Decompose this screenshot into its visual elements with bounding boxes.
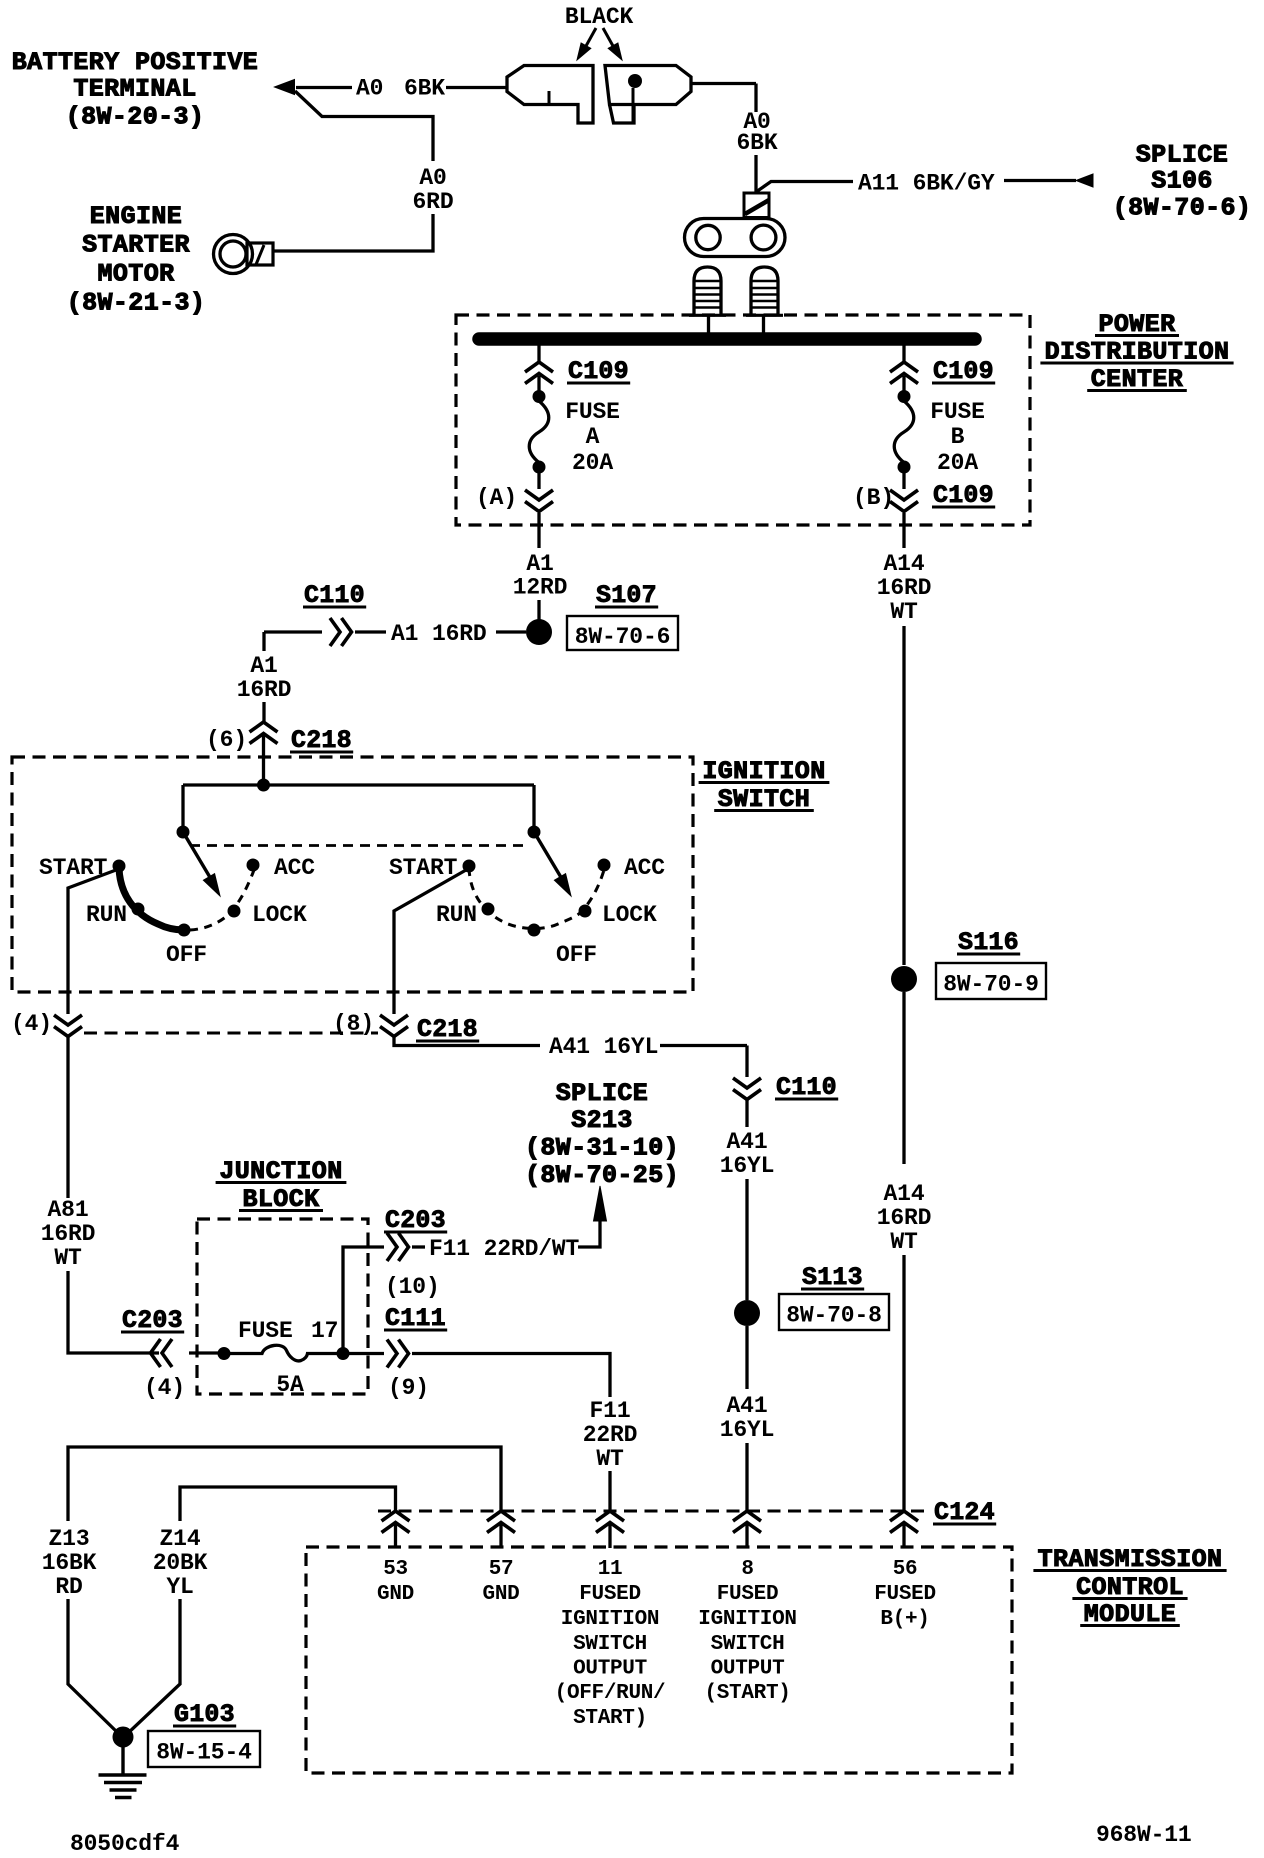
svg-text:A41: A41 [727,1393,768,1419]
svg-text:OFF: OFF [556,942,597,968]
mechanical coupling dashed line [190,844,530,847]
pin stub wires into TCM [394,1523,397,1548]
connector C203 left chevrons [162,1339,172,1367]
svg-text:56: 56 [893,1558,918,1581]
svg-text:MOTOR: MOTOR [97,260,174,289]
svg-text:SWITCH: SWITCH [573,1633,647,1656]
svg-text:A0: A0 [356,76,383,102]
svg-text:A1: A1 [526,551,553,577]
wire A1 16RD horizontal [264,630,322,633]
junction dot fuse17 right [337,1347,350,1360]
svg-text:11: 11 [598,1558,623,1581]
wire fuse B top [902,345,905,362]
wire branch to starter motor [295,91,433,161]
left switch dashed arc OFF-LOCK-ACC [190,870,254,930]
svg-text:WT: WT [890,599,918,625]
fuse 17 element [230,1345,343,1361]
wire A14 to TCM pin 56 [902,1255,905,1510]
svg-text:FUSE: FUSE [238,1318,293,1344]
svg-text:ACC: ACC [624,855,665,881]
svg-text:FUSE: FUSE [565,399,620,425]
wire A11 6BK/GY to splice S106 [756,182,853,193]
junction dot fuse17 left [218,1347,231,1360]
svg-text:8W-15-4: 8W-15-4 [156,1740,252,1766]
svg-text:(8): (8) [333,1011,374,1037]
connector C124 pin 57 chevrons [487,1511,515,1521]
wire into ignition switch [262,734,265,785]
svg-text:OUTPUT: OUTPUT [573,1658,647,1681]
ignition switch dashed box [12,757,693,992]
svg-text:(A): (A) [476,485,517,511]
wire A41 to TCM pin 8 [745,1443,748,1510]
wire after C110 [355,630,386,633]
wire A81 to junction block [68,1271,159,1353]
battery connector left half [507,66,593,124]
splice S113 dot [734,1300,760,1326]
svg-text:(8W-31-10): (8W-31-10) [525,1134,679,1163]
svg-text:(10): (10) [385,1274,440,1300]
svg-text:8050cdf4: 8050cdf4 [70,1831,180,1857]
wire Z14 to ground [127,1599,180,1734]
junction dot fuse A bottom [533,461,546,474]
svg-text:22RD: 22RD [583,1422,638,1448]
svg-text:(8W-21-3): (8W-21-3) [67,289,206,318]
engine starter motor eyelet terminal [214,235,253,274]
svg-text:ACC: ACC [274,855,315,881]
svg-text:A1 16RD: A1 16RD [391,621,487,647]
transmission control module dashed box [306,1547,1012,1773]
svg-text:A: A [586,424,600,450]
svg-text:12RD: 12RD [513,575,568,601]
svg-text:TERMINAL: TERMINAL [73,75,196,104]
svg-text:B: B [951,424,965,450]
wire A0 6BK down from connector [691,82,756,85]
wire A41 below S113 [745,1326,748,1389]
svg-text:5A: 5A [276,1372,304,1398]
wire Z14 from pin 53 to left [180,1487,396,1521]
svg-text:F11 22RD/WT: F11 22RD/WT [429,1236,580,1262]
svg-text:BLACK: BLACK [565,4,634,30]
svg-text:B(+): B(+) [880,1608,929,1631]
svg-text:20BK: 20BK [153,1550,208,1576]
svg-text:(4): (4) [11,1011,52,1037]
svg-text:57: 57 [489,1558,514,1581]
svg-text:WT: WT [54,1245,82,1271]
svg-text:16RD: 16RD [877,1205,932,1231]
svg-text:RD: RD [55,1574,82,1600]
svg-text:16YL: 16YL [720,1417,775,1443]
wire to fuse A [537,376,540,391]
svg-text:IGNITION: IGNITION [561,1608,659,1631]
battery connector right half [605,66,691,105]
connector C124 pin 56 chevrons [890,1511,918,1521]
threaded stud right (coil) [751,267,778,315]
svg-text:YL: YL [166,1574,193,1600]
svg-text:IGNITION: IGNITION [698,1608,796,1631]
svg-text:START): START) [573,1707,647,1730]
wire to right pivot [532,785,535,827]
connector C124 dashed bracket [378,1510,928,1513]
wire F11 to TCM pin 11 [608,1471,611,1510]
junction dot fuse B bottom [898,461,911,474]
svg-text:(4): (4) [144,1375,185,1401]
left switch contacts START RUN OFF LOCK ACC [113,860,126,873]
svg-text:(B): (B) [853,485,894,511]
svg-text:BATTERY POSITIVE: BATTERY POSITIVE [12,48,258,77]
wire from left START down [68,870,116,1014]
threaded stud left (coil) [694,267,721,315]
wire continues to splice junction [754,155,757,193]
wire A14 below S116 [902,992,905,1164]
splice S116 dot [891,966,917,992]
svg-text:WT: WT [890,1229,918,1255]
svg-text:FUSED: FUSED [579,1583,641,1606]
wire A1 out of PDC [537,513,540,548]
svg-text:(8W-70-25): (8W-70-25) [525,1161,679,1190]
svg-text:FUSED: FUSED [874,1583,936,1606]
connector C218 pin 6 chevrons [250,722,278,732]
reference box 8W-70-6 [567,616,678,650]
svg-text:RUN: RUN [436,902,477,928]
bus bar [479,332,975,346]
wire A41 below C110 [745,1100,748,1127]
arrow from BLACK to right connector half [603,28,613,46]
connector C218 pin 8 chevrons [380,1015,408,1025]
wire feed rail [183,783,534,786]
connector C109 fuse A bottom [525,490,553,500]
ground symbol [121,1746,124,1775]
wire A81 down from pin 4 [66,1037,69,1198]
svg-text:GND: GND [377,1583,414,1606]
fusible link hatched [744,193,769,218]
svg-text:GND: GND [483,1583,520,1606]
ground junction dot G103 [113,1727,134,1748]
connector C124 pin 11 chevrons [596,1511,624,1521]
wire A1 to splice S107 [537,600,540,620]
svg-text:WT: WT [596,1446,624,1472]
right switch dashed arc START-RUN-OFF-LOCK-ACC [469,868,604,929]
wire A14 down to splice S116 [902,626,905,965]
svg-text:16BK: 16BK [42,1550,97,1576]
svg-text:SPLICE: SPLICE [556,1079,648,1108]
wire into splice S107 [496,630,526,633]
left switch thick arc START-RUN-OFF [119,868,184,930]
wire Z13 to ground [68,1599,119,1734]
wire F11 out of junction block [349,1352,384,1355]
svg-text:(8W-20-3): (8W-20-3) [66,103,205,132]
svg-text:A41: A41 [727,1129,768,1155]
svg-text:A0: A0 [419,165,446,191]
junction dot fuse A top [533,390,546,403]
svg-text:FUSE: FUSE [930,399,985,425]
wire to connector C218 pin6 [262,702,265,722]
wire A14 out of PDC [902,513,905,548]
svg-text:START: START [389,855,458,881]
wire fuse A bottom [537,472,540,489]
svg-text:6BK: 6BK [404,76,445,102]
svg-text:A14: A14 [884,1181,925,1207]
svg-text:16RD: 16RD [41,1221,96,1247]
svg-text:Z14: Z14 [160,1526,201,1552]
wire fuse A top [537,345,540,362]
wire to fuse B [902,376,905,391]
svg-text:16RD: 16RD [237,677,292,703]
svg-text:A41 16YL: A41 16YL [549,1034,658,1060]
svg-text:SWITCH: SWITCH [711,1633,785,1656]
svg-text:6BK: 6BK [737,130,778,156]
svg-text:8W-70-8: 8W-70-8 [786,1303,882,1329]
svg-text:S213: S213 [571,1106,633,1135]
svg-text:A14: A14 [884,551,925,577]
svg-text:16YL: 16YL [720,1153,775,1179]
svg-text:ENGINE: ENGINE [90,202,182,231]
svg-text:S106: S106 [1151,167,1213,196]
connector C110 chevrons [330,618,340,646]
svg-text:A1: A1 [250,653,277,679]
left switch wiper arrow [186,837,211,879]
svg-text:8: 8 [741,1558,753,1581]
connector C109 fuse A top [525,362,553,372]
svg-text:17: 17 [311,1318,338,1344]
wire A0 6BK to battery terminal [296,86,352,89]
svg-text:53: 53 [383,1558,408,1581]
fuse A element [529,401,549,463]
fuse B element [894,401,914,463]
arrow from BLACK to left connector half [586,28,596,46]
svg-text:6RD: 6RD [413,189,454,215]
svg-text:8W-70-9: 8W-70-9 [943,972,1039,998]
svg-text:SPLICE: SPLICE [1136,141,1228,170]
svg-text:F11: F11 [590,1398,631,1424]
junction dot fuse B top [898,390,911,403]
svg-text:(9): (9) [388,1375,429,1401]
wire from right START down [394,870,466,1014]
junction dot feed [257,779,270,792]
svg-text:20A: 20A [937,450,978,476]
svg-text:OUTPUT: OUTPUT [711,1658,785,1681]
connector C109 fuse B top [890,362,918,372]
right switch wiper arrow [537,837,562,879]
svg-text:(START): (START) [704,1682,790,1705]
connector C124 pin 53 chevrons [382,1511,410,1521]
reference box 8W-70-8 [779,1294,889,1330]
svg-text:RUN: RUN [86,902,127,928]
junction block dashed box [197,1219,368,1394]
wire into junction block [189,1351,219,1354]
splice S107 dot [526,619,552,645]
right switch contacts START RUN OFF LOCK ACC [463,860,476,873]
off-page arrow to battery positive terminal [275,80,295,95]
wire A0 6RD to starter motor [273,214,433,251]
wire A41 to splice S113 [745,1179,748,1300]
connector C124 pin 8 chevrons [733,1511,761,1521]
svg-text:FUSED: FUSED [717,1583,779,1606]
svg-text:20A: 20A [572,450,613,476]
wire A41 from pin 8 [394,1037,540,1046]
wire to left pivot [181,785,184,827]
wire F11 up branch [343,1247,384,1348]
wire to splice S213 arrow [578,1221,600,1247]
connector C218 pin 4 chevrons [54,1015,82,1025]
wire A1 16RD down leg [262,632,265,651]
svg-text:A81: A81 [48,1197,89,1223]
reference box 8W-70-9 [936,963,1046,999]
svg-text:OFF: OFF [166,942,207,968]
svg-text:(OFF/RUN/: (OFF/RUN/ [555,1682,666,1705]
svg-text:A11 6BK/GY: A11 6BK/GY [858,171,995,197]
connector C203 top chevrons [387,1233,397,1261]
svg-text:16RD: 16RD [877,575,932,601]
svg-text:STARTER: STARTER [82,231,190,260]
connector C111 chevrons [387,1340,397,1368]
svg-text:968W-11: 968W-11 [1096,1822,1192,1848]
wire F11 to corner [412,1354,610,1398]
svg-text:(8W-70-6): (8W-70-6) [1113,194,1252,223]
connector C110 lower chevrons [733,1078,761,1088]
svg-text:8W-70-6: 8W-70-6 [575,624,671,650]
dashed connector bracket C218 [84,1032,378,1035]
wire fuse B bottom [902,472,905,489]
svg-text:LOCK: LOCK [602,902,657,928]
left switch pivot dot [177,826,190,839]
svg-text:Z13: Z13 [49,1526,90,1552]
power distribution center dashed box [456,315,1030,525]
wire after C203 [412,1245,425,1248]
connector C109 fuse B bottom [890,490,918,500]
reference box 8W-15-4 [148,1731,260,1767]
battery eyelet plate with two terminals [685,219,786,257]
wire A41 corner down [745,1046,748,1078]
svg-text:LOCK: LOCK [252,902,307,928]
wire Z13 from pin 57 to left [68,1447,501,1521]
svg-text:(6): (6) [206,727,247,753]
stud stub wires to bus [707,316,710,334]
arrow to splice S106 [1076,174,1093,187]
right switch pivot dot [528,826,541,839]
